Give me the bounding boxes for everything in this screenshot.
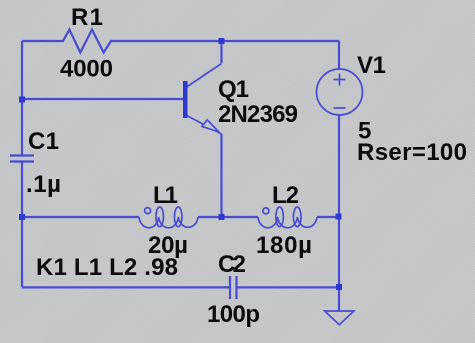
- svg-text:Rser=100: Rser=100: [357, 139, 467, 166]
- svg-text:180µ: 180µ: [256, 232, 312, 259]
- svg-text:V1: V1: [357, 52, 386, 79]
- svg-text:100p: 100p: [207, 301, 260, 328]
- svg-text:4000: 4000: [60, 56, 113, 83]
- svg-text:Q1: Q1: [218, 76, 249, 103]
- svg-text:C1: C1: [28, 128, 59, 155]
- svg-text:R1: R1: [71, 4, 103, 31]
- svg-text:L1: L1: [153, 182, 178, 209]
- svg-text:.1µ: .1µ: [26, 171, 61, 198]
- svg-text:2N2369: 2N2369: [218, 101, 298, 128]
- svg-text:L2: L2: [272, 182, 299, 209]
- svg-text:K1 L1 L2 .98: K1 L1 L2 .98: [36, 254, 178, 281]
- svg-text:C2: C2: [218, 251, 246, 278]
